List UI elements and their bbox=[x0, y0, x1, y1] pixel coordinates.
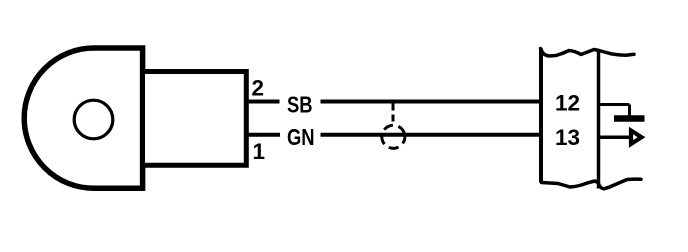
wire GN segment from pin 1 bbox=[248, 133, 280, 137]
svg-text:GN: GN bbox=[287, 125, 315, 150]
off-page connector arrow bbox=[631, 131, 642, 144]
signal branch wire from terminal 13 bbox=[599, 135, 630, 139]
connector strip torn top edge bbox=[541, 49, 635, 57]
wire SB segment from pin 2 bbox=[248, 100, 280, 104]
ground branch drop bbox=[628, 105, 631, 117]
inline connector (dashed circle on GN wire) bbox=[379, 123, 407, 151]
sensor mounting hole (inner circle) bbox=[74, 100, 113, 139]
connector strip right edge bbox=[597, 50, 601, 189]
svg-text:2: 2 bbox=[252, 76, 265, 101]
connector strip left edge bbox=[539, 49, 543, 183]
wire label GN bbox=[287, 125, 315, 150]
svg-text:12: 12 bbox=[555, 91, 580, 116]
wire GN segment to terminal 13 bbox=[321, 133, 542, 137]
connector strip torn bottom edge bbox=[542, 179, 642, 189]
connector housing bbox=[143, 72, 247, 166]
ground symbol (chassis bar) bbox=[614, 115, 645, 122]
ground branch wire from terminal 12 bbox=[599, 103, 630, 106]
wire label SB bbox=[287, 93, 313, 118]
svg-text:1: 1 bbox=[253, 139, 266, 164]
svg-text:13: 13 bbox=[555, 125, 580, 150]
sensor body (D-shaped component) bbox=[24, 48, 142, 188]
svg-text:SB: SB bbox=[287, 93, 313, 118]
wire SB segment to terminal 12 bbox=[321, 100, 542, 104]
off-page connector arrow back bar bbox=[629, 129, 633, 145]
inline connector branch (dashed drop line) bbox=[392, 104, 395, 126]
